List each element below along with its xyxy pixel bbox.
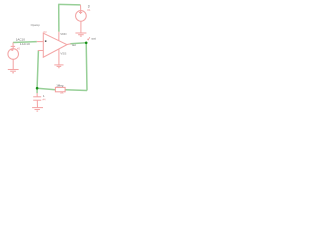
svg-text:out: out <box>72 43 76 47</box>
svg-text:1Meg: 1Meg <box>56 84 64 88</box>
node out junction <box>85 42 88 45</box>
wire <box>65 89 87 92</box>
svg-text:VDD: VDD <box>60 32 67 36</box>
voltage source V1 <box>76 5 87 33</box>
wire <box>58 4 60 31</box>
voltage source V2 <box>8 43 19 70</box>
svg-text:1AC10: 1AC10 <box>20 42 30 46</box>
resistor R1 1Meg <box>55 84 65 96</box>
svg-text:#4: #4 <box>43 98 46 102</box>
svg-text:VSS: VSS <box>60 52 66 56</box>
wire <box>37 88 55 90</box>
svg-text:Opamp: Opamp <box>31 23 41 27</box>
capacitor C1 <box>33 93 41 108</box>
node feedback junction <box>36 87 39 90</box>
svg-text:#3: #3 <box>43 30 47 34</box>
op-amp U1 <box>31 23 76 65</box>
svg-text:#1: #1 <box>87 8 91 12</box>
wire <box>70 43 86 44</box>
ground (op-amp VSS) <box>54 65 63 68</box>
wire <box>13 41 37 44</box>
node out label <box>87 37 95 41</box>
wire <box>37 51 38 89</box>
svg-text:out: out <box>92 37 96 41</box>
wire <box>58 3 80 6</box>
svg-text:#5: #5 <box>60 91 63 95</box>
svg-text:#2: #2 <box>17 46 21 50</box>
ground (V1) <box>75 33 86 36</box>
wire <box>85 43 88 91</box>
ground (C1) <box>32 108 43 112</box>
ground (V2) <box>8 70 19 73</box>
wire <box>36 88 38 93</box>
